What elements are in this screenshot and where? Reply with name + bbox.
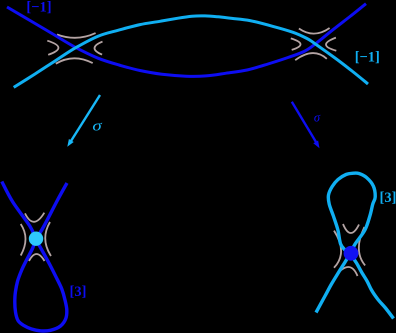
svg-text:[−1]: [−1]	[355, 49, 380, 65]
gray branch top-left crossing: left hyperbola arc	[47, 41, 58, 55]
svg-text:σ: σ	[314, 110, 321, 124]
gray branch bottom-left crossing: lower hyperbola arc	[29, 254, 45, 261]
arrow sigma right (blue)	[292, 102, 317, 144]
gray branch bottom-left crossing: upper hyperbola arc	[25, 213, 44, 222]
node dot bottom-left (cyan)	[29, 232, 43, 246]
cyan curve bottom-right (loop on top)	[316, 173, 394, 318]
gray branch top-right crossing: lower hyperbola arc	[295, 53, 327, 60]
gray branch top-left crossing: right hyperbola arc	[94, 42, 102, 55]
gray branch top-left crossing: upper hyperbola arc	[57, 33, 96, 38]
svg-text:[3]: [3]	[380, 190, 396, 206]
gray branch bottom-right crossing: upper hyperbola arc	[343, 224, 359, 233]
gray branch top-right crossing: right hyperbola arc	[326, 38, 336, 51]
svg-text:[3]: [3]	[70, 284, 87, 300]
blue curve C1 (top)	[7, 4, 366, 77]
gray branch bottom-right crossing: lower hyperbola arc	[336, 267, 357, 276]
gray branch top-left crossing: lower hyperbola arc	[56, 58, 93, 63]
gray branch bottom-left crossing: right hyperbola arc	[45, 222, 51, 256]
gray branch top-right crossing: upper hyperbola arc	[299, 28, 330, 34]
svg-text:[−1]: [−1]	[26, 0, 51, 16]
node dot bottom-right (blue)	[344, 246, 359, 261]
cyan curve C2 (top)	[14, 16, 368, 88]
gray branch top-right crossing: left hyperbola arc	[291, 38, 301, 50]
arrow sigma left (cyan)	[70, 95, 100, 143]
gray branch bottom-left crossing: left hyperbola arc	[21, 224, 26, 256]
gray branch bottom-right crossing: left hyperbola arc	[334, 231, 341, 268]
svg-text:σ: σ	[92, 119, 102, 135]
blue curve bottom-left (alpha/loop shape)	[2, 182, 67, 332]
gray branch bottom-right crossing: right hyperbola arc	[359, 227, 365, 265]
